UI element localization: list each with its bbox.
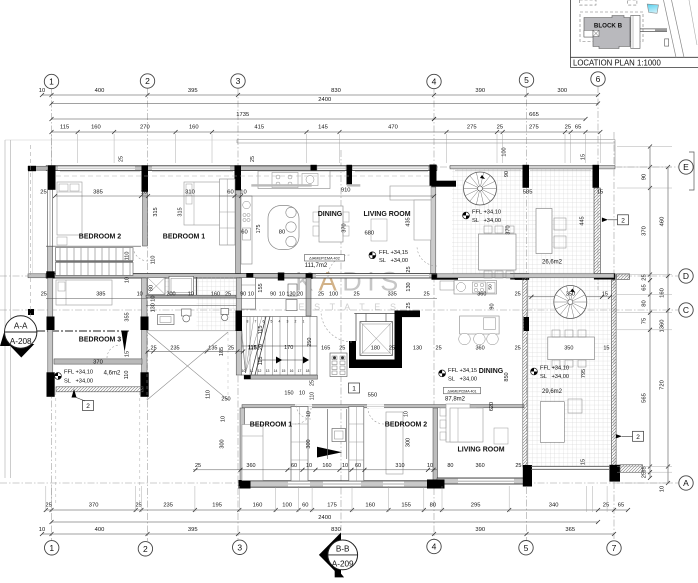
svg-text:400: 400 xyxy=(95,527,105,533)
svg-text:350: 350 xyxy=(566,292,575,298)
svg-text:87,8m2: 87,8m2 xyxy=(445,397,466,403)
svg-text:830: 830 xyxy=(331,527,341,533)
separation wall 401/terrace grid4 xyxy=(433,408,438,480)
svg-text:300: 300 xyxy=(406,438,412,447)
dining table 401 xyxy=(446,404,470,442)
svg-text:6: 6 xyxy=(596,74,601,84)
top wall window whites xyxy=(58,166,135,170)
apt402 internal stairs xyxy=(46,245,141,247)
bedroom3 balcony south hatched edge xyxy=(56,387,143,392)
area + FFL labels apt402 xyxy=(305,255,345,262)
svg-text:25: 25 xyxy=(225,292,231,298)
driveway xyxy=(640,28,667,30)
svg-text:25: 25 xyxy=(515,463,521,469)
hall cross X xyxy=(147,332,228,400)
right terrace east parapet xyxy=(612,280,617,467)
svg-text:80: 80 xyxy=(149,285,155,291)
SE hatched block xyxy=(620,465,643,473)
svg-text:160: 160 xyxy=(660,288,666,298)
svg-text:365: 365 xyxy=(565,527,575,533)
bracket right of E xyxy=(689,152,694,190)
svg-text:5: 5 xyxy=(271,320,273,324)
svg-text:160: 160 xyxy=(365,503,375,509)
svg-text:10: 10 xyxy=(299,391,305,397)
neighbour boundary lines left xyxy=(4,140,6,478)
svg-text:165: 165 xyxy=(321,346,330,352)
svg-text:10: 10 xyxy=(39,527,45,533)
svg-text:25: 25 xyxy=(406,302,412,308)
svg-text:100: 100 xyxy=(282,503,292,509)
kitchen island 401 xyxy=(460,316,500,334)
svg-text:110: 110 xyxy=(124,371,130,380)
svg-text:370: 370 xyxy=(342,223,348,232)
svg-text:25: 25 xyxy=(339,346,345,352)
balcony projection dashed lines xyxy=(55,392,57,506)
svg-text:FFL +34,15: FFL +34,15 xyxy=(448,368,477,374)
svg-text:910: 910 xyxy=(341,188,351,194)
grid bubbles top xyxy=(44,74,58,88)
roof overhang outline above xyxy=(237,139,615,141)
svg-text:175: 175 xyxy=(256,225,262,234)
location plan frame xyxy=(570,0,572,68)
svg-text:LOCATION PLAN 1:1000: LOCATION PLAN 1:1000 xyxy=(573,58,661,67)
elevator car xyxy=(360,322,393,356)
svg-text:FFL +34,15: FFL +34,15 xyxy=(379,250,408,256)
svg-text:SL +34,00: SL +34,00 xyxy=(472,218,501,224)
top wall left party stub xyxy=(28,166,48,170)
svg-text:160: 160 xyxy=(211,292,220,298)
svg-text:10: 10 xyxy=(188,292,194,298)
svg-text:130: 130 xyxy=(413,346,422,352)
stair bottom landing strip xyxy=(251,375,318,379)
svg-text:300: 300 xyxy=(220,439,226,448)
svg-text:25: 25 xyxy=(603,503,609,509)
svg-text:8: 8 xyxy=(247,320,249,324)
svg-text:FFL +34,10: FFL +34,10 xyxy=(540,366,569,372)
door arcs xyxy=(133,246,148,261)
svg-text:DINING: DINING xyxy=(479,368,504,375)
sill dashed line through apt402 xyxy=(56,175,430,177)
svg-text:340: 340 xyxy=(549,503,559,509)
svg-text:25: 25 xyxy=(195,463,201,469)
svg-text:300: 300 xyxy=(557,88,567,94)
svg-text:18: 18 xyxy=(306,369,310,373)
white building right xyxy=(631,15,640,48)
svg-text:390: 390 xyxy=(475,88,485,94)
svg-text:7: 7 xyxy=(612,543,617,553)
svg-text:C: C xyxy=(683,305,689,315)
svg-text:145: 145 xyxy=(318,125,328,131)
bathtub xyxy=(169,276,194,294)
svg-text:60: 60 xyxy=(227,190,233,196)
extension lines top dims xyxy=(51,134,53,163)
svg-text:160: 160 xyxy=(253,503,263,509)
svg-text:15: 15 xyxy=(603,346,609,352)
svg-text:65: 65 xyxy=(642,284,648,290)
svg-text:3: 3 xyxy=(237,542,242,552)
svg-text:25: 25 xyxy=(250,156,256,162)
section line A-A xyxy=(37,330,130,332)
spiral stair terrace 2 xyxy=(554,286,587,319)
svg-text:15: 15 xyxy=(602,292,608,298)
svg-text:110: 110 xyxy=(125,252,131,261)
svg-text:4: 4 xyxy=(279,320,281,324)
svg-text:80: 80 xyxy=(642,300,648,306)
svg-text:10: 10 xyxy=(342,463,348,469)
svg-text:B-B: B-B xyxy=(336,545,350,554)
svg-text:SL +34,00: SL +34,00 xyxy=(540,374,569,380)
svg-text:2400: 2400 xyxy=(318,515,331,521)
kitchen island xyxy=(268,206,299,250)
terrace sofa xyxy=(536,209,552,254)
FFL terrace 2 xyxy=(531,368,538,375)
bedroom3 bottom wall 370 band xyxy=(54,359,142,364)
svg-text:235: 235 xyxy=(163,503,173,509)
svg-text:25: 25 xyxy=(565,125,571,131)
grid lines vertical xyxy=(51,88,53,541)
wall grid3 vertical xyxy=(236,170,241,273)
svg-text:4: 4 xyxy=(432,77,437,87)
terrace floor hatch right xyxy=(527,278,611,467)
svg-text:795: 795 xyxy=(581,369,587,378)
wc 2 xyxy=(221,309,229,315)
svg-text:4: 4 xyxy=(432,542,437,552)
kitchen L-counter on grid3 wall xyxy=(241,196,252,264)
svg-text:115: 115 xyxy=(60,125,69,131)
svg-text:LIVING ROOM: LIVING ROOM xyxy=(457,447,504,454)
svg-text:20: 20 xyxy=(258,344,264,350)
svg-text:SL +34,00: SL +34,00 xyxy=(64,379,93,385)
entry arc apt402 xyxy=(321,311,352,342)
svg-text:315: 315 xyxy=(153,207,159,216)
svg-text:BEDROOM 2: BEDROOM 2 xyxy=(79,234,122,241)
left wall window xyxy=(48,190,52,246)
svg-text:150: 150 xyxy=(284,391,293,397)
svg-text:10 130 20: 10 130 20 xyxy=(279,292,303,298)
bedroom3 right wall grid2 xyxy=(142,278,148,396)
stairwell west wall xyxy=(306,278,311,316)
stair winders fan xyxy=(246,317,263,374)
svg-text:50: 50 xyxy=(488,284,494,290)
svg-text:2: 2 xyxy=(636,434,640,441)
svg-text:175: 175 xyxy=(327,503,337,509)
bathroom walls xyxy=(146,295,236,297)
south wall bedroom wing xyxy=(240,481,437,487)
terrace south wall band xyxy=(437,274,614,278)
svg-text:200: 200 xyxy=(166,292,175,298)
bottom dimension chains xyxy=(46,509,628,511)
svg-text:310: 310 xyxy=(185,190,195,196)
svg-text:90: 90 xyxy=(490,303,496,309)
wardrobe 2 xyxy=(349,407,364,482)
closet right of grid3 xyxy=(240,278,256,310)
svg-text:A-A: A-A xyxy=(14,322,28,331)
svg-text:80: 80 xyxy=(279,230,285,236)
box marker 2 balcony xyxy=(83,401,94,411)
road box xyxy=(665,39,669,46)
svg-text:BEDROOM 2: BEDROOM 2 xyxy=(385,422,428,429)
svg-text:SL +34,00: SL +34,00 xyxy=(448,377,477,383)
svg-text:270: 270 xyxy=(140,125,150,131)
svg-text:385: 385 xyxy=(96,292,105,298)
svg-text:80: 80 xyxy=(430,503,436,509)
svg-text:10: 10 xyxy=(242,369,246,373)
FFL terrace 1 xyxy=(463,212,470,219)
svg-text:25: 25 xyxy=(310,380,316,386)
kitchen counter 401 xyxy=(454,281,497,295)
box marker 2 right lower xyxy=(633,431,644,441)
svg-text:16: 16 xyxy=(290,369,294,373)
401 west wall window xyxy=(241,425,245,470)
svg-text:180: 180 xyxy=(371,346,380,352)
road xyxy=(664,0,677,57)
grid5 black col mid xyxy=(524,317,530,331)
stair arrows xyxy=(258,359,306,361)
svg-text:130 10: 130 10 xyxy=(151,296,157,313)
svg-text:60: 60 xyxy=(291,463,297,469)
svg-text:115: 115 xyxy=(258,357,264,366)
svg-text:310: 310 xyxy=(395,463,404,469)
svg-text:110: 110 xyxy=(206,390,212,399)
svg-text:90: 90 xyxy=(642,174,648,180)
svg-text:29,6m2: 29,6m2 xyxy=(542,389,563,395)
south wall living 401 xyxy=(437,478,524,484)
svg-text:60: 60 xyxy=(302,503,308,509)
columns top wall xyxy=(48,165,56,190)
block B building xyxy=(584,16,630,49)
svg-text:400: 400 xyxy=(95,88,105,94)
east wall 401 (grid5) xyxy=(523,278,528,467)
svg-text:170: 170 xyxy=(284,345,293,351)
svg-text:17: 17 xyxy=(298,369,302,373)
right dimension chains xyxy=(649,147,651,478)
svg-text:3: 3 xyxy=(236,76,241,86)
svg-text:100: 100 xyxy=(329,292,338,298)
svg-text:10: 10 xyxy=(404,411,410,417)
svg-text:2: 2 xyxy=(86,403,90,410)
main staircase xyxy=(241,317,317,376)
wardrobe 1 xyxy=(291,407,308,482)
svg-text:355: 355 xyxy=(125,312,131,321)
svg-text:90: 90 xyxy=(504,171,510,177)
left neighbour party wall details xyxy=(28,309,34,315)
plot boundary dashed xyxy=(580,12,643,42)
svg-text:350: 350 xyxy=(564,346,573,352)
pool xyxy=(647,4,658,13)
wardrobe bedroom1 xyxy=(220,179,236,245)
svg-text:E S T A T E S: E S T A T E S xyxy=(298,302,399,312)
svg-text:25: 25 xyxy=(45,503,51,509)
svg-text:110: 110 xyxy=(310,392,316,400)
svg-text:360: 360 xyxy=(476,346,485,352)
spiral stair terrace 1 xyxy=(464,172,497,205)
duct rack below stairs xyxy=(330,353,347,377)
svg-text:25: 25 xyxy=(354,292,360,298)
svg-text:A: A xyxy=(683,478,689,488)
stair cut line xyxy=(251,317,266,376)
svg-text:25: 25 xyxy=(389,346,395,352)
svg-text:585: 585 xyxy=(523,190,533,196)
svg-text:470: 470 xyxy=(388,125,398,131)
bed bedroom2 401 xyxy=(386,412,403,474)
shaft walls xyxy=(327,409,329,459)
basin 1 xyxy=(158,315,175,325)
bed bedroom2 402 xyxy=(57,182,82,235)
svg-text:25: 25 xyxy=(642,472,648,478)
svg-text:1: 1 xyxy=(303,320,305,324)
svg-text:2: 2 xyxy=(621,217,625,224)
svg-text:25: 25 xyxy=(424,292,430,298)
svg-text:25: 25 xyxy=(118,156,124,162)
svg-text:335: 335 xyxy=(388,292,397,298)
terrace2 sofa xyxy=(540,402,564,443)
block B white square with X xyxy=(593,30,599,36)
svg-text:390: 390 xyxy=(475,527,485,533)
svg-text:BEDROOM 1: BEDROOM 1 xyxy=(163,234,206,241)
svg-text:195: 195 xyxy=(212,503,222,509)
wc 1 xyxy=(182,309,192,316)
svg-text:135: 135 xyxy=(208,346,217,352)
svg-text:155: 155 xyxy=(258,283,264,292)
grid bubbles right xyxy=(679,160,693,174)
svg-text:415: 415 xyxy=(254,125,264,131)
extension lines right dims xyxy=(617,146,672,148)
grid3 wall stair west xyxy=(236,278,241,375)
svg-text:115: 115 xyxy=(248,345,257,351)
svg-text:A-208: A-208 xyxy=(10,337,32,346)
svg-text:25: 25 xyxy=(318,292,324,298)
svg-text:25: 25 xyxy=(497,125,503,131)
svg-text:26,6m2: 26,6m2 xyxy=(542,260,563,266)
svg-text:250: 250 xyxy=(307,338,313,347)
svg-text:25: 25 xyxy=(135,503,141,509)
right terrace SE column xyxy=(609,465,620,482)
svg-text:65: 65 xyxy=(575,125,581,131)
svg-text:25: 25 xyxy=(515,346,521,352)
terrace parapet east (hatched) xyxy=(594,188,600,276)
svg-text:110: 110 xyxy=(151,256,157,265)
wall grid4 vertical (living/terrace) xyxy=(431,187,436,274)
top dimension chains xyxy=(52,94,599,96)
hatched block right of terrace wall xyxy=(617,274,630,280)
bedroom3 left wall window xyxy=(48,332,52,372)
top terrace wall xyxy=(450,166,615,169)
svg-text:25: 25 xyxy=(436,346,442,352)
svg-text:E: E xyxy=(683,162,689,172)
svg-text:15: 15 xyxy=(581,459,587,465)
section cut triangle bedroom3 xyxy=(121,331,128,352)
grid lines horizontal E D C A xyxy=(40,166,678,168)
svg-text:7: 7 xyxy=(255,320,257,324)
terrace floor hatch top-right xyxy=(452,169,594,275)
box marker 2 top right xyxy=(618,215,629,225)
svg-text:13: 13 xyxy=(266,369,270,373)
svg-text:250: 250 xyxy=(221,397,230,403)
svg-text:12: 12 xyxy=(258,369,262,373)
svg-text:370: 370 xyxy=(642,226,648,236)
svg-text:3: 3 xyxy=(287,320,289,324)
svg-text:360: 360 xyxy=(476,463,485,469)
svg-text:665: 665 xyxy=(529,112,539,118)
svg-text:445: 445 xyxy=(580,216,586,225)
left exterior wall xyxy=(48,170,53,274)
apt402 wc fixtures xyxy=(286,300,297,311)
svg-text:10: 10 xyxy=(660,486,666,492)
svg-text:360: 360 xyxy=(477,292,486,298)
svg-text:565: 565 xyxy=(642,393,648,403)
svg-text:155: 155 xyxy=(401,503,411,509)
svg-text:10: 10 xyxy=(137,292,143,298)
counter inner gray strips xyxy=(251,184,311,186)
svg-text:370: 370 xyxy=(93,359,103,365)
FFL balcony bedroom3 xyxy=(55,373,62,380)
terrace south columns xyxy=(510,273,529,279)
svg-text:60: 60 xyxy=(241,230,247,236)
svg-text:10: 10 xyxy=(240,190,246,196)
svg-text:DINING: DINING xyxy=(318,211,343,218)
svg-text:360: 360 xyxy=(246,463,255,469)
svg-text:10: 10 xyxy=(39,88,45,94)
section marker B-B xyxy=(319,533,341,578)
right terrace bottom edge xyxy=(531,465,609,467)
svg-text:90: 90 xyxy=(270,292,276,298)
svg-text:2: 2 xyxy=(295,320,297,324)
svg-text:395: 395 xyxy=(188,88,198,94)
svg-text:5: 5 xyxy=(524,75,529,85)
svg-text:680: 680 xyxy=(364,231,374,237)
svg-text:300: 300 xyxy=(306,439,312,448)
extension lines bottom dims xyxy=(45,486,47,512)
svg-text:235: 235 xyxy=(170,346,179,352)
svg-text:65: 65 xyxy=(618,503,624,509)
svg-text:BEDROOM 3: BEDROOM 3 xyxy=(79,337,122,344)
svg-text:1360: 1360 xyxy=(660,320,666,333)
svg-text:10: 10 xyxy=(125,277,131,283)
svg-text:115: 115 xyxy=(258,326,264,335)
corridor wall 401 xyxy=(242,405,524,408)
svg-text:460: 460 xyxy=(660,217,666,227)
svg-text:370: 370 xyxy=(506,225,512,234)
svg-text:160: 160 xyxy=(91,125,101,131)
svg-text:370: 370 xyxy=(89,503,99,509)
svg-text:295: 295 xyxy=(471,503,481,509)
elevator shaft xyxy=(349,341,356,368)
svg-text:10: 10 xyxy=(141,190,147,196)
svg-text:10: 10 xyxy=(306,463,312,469)
svg-text:100: 100 xyxy=(502,147,508,156)
svg-text:15: 15 xyxy=(282,369,286,373)
svg-text:15: 15 xyxy=(597,190,603,196)
svg-text:315: 315 xyxy=(178,207,184,216)
svg-text:LIVING ROOM: LIVING ROOM xyxy=(363,211,410,218)
svg-text:160: 160 xyxy=(322,463,331,469)
top exterior wall apartment 402 xyxy=(46,166,437,171)
svg-text:1: 1 xyxy=(49,77,54,87)
south wall 402 columns xyxy=(46,271,54,278)
svg-text:160: 160 xyxy=(189,125,199,131)
svg-text:D: D xyxy=(683,271,689,281)
svg-text:395: 395 xyxy=(188,527,198,533)
svg-text:720: 720 xyxy=(660,380,666,390)
svg-text:385: 385 xyxy=(93,190,103,196)
terrace columns xyxy=(523,165,530,188)
kitchen counter 402 xyxy=(258,171,330,189)
svg-text:830: 830 xyxy=(331,88,341,94)
svg-text:60: 60 xyxy=(355,463,361,469)
svg-text:1735: 1735 xyxy=(236,112,249,118)
svg-text:275: 275 xyxy=(467,125,477,131)
bathroom tile floor xyxy=(146,277,236,295)
